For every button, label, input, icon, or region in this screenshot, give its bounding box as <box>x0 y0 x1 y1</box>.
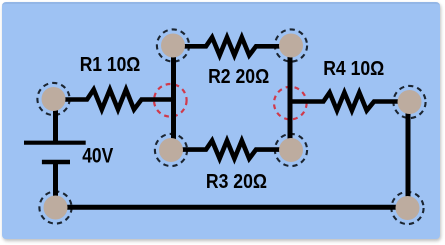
node ring bottom-right-middle <box>275 134 307 166</box>
resistor R4 with leads <box>290 93 410 111</box>
resistor R1 with leads <box>54 90 174 110</box>
wire vertical mid-right (node B column) <box>288 46 293 151</box>
svg-text:R1 10Ω: R1 10Ω <box>80 54 141 76</box>
node bottom-right corner <box>396 196 420 220</box>
junction marker J1 (red dashed circle) <box>154 84 187 117</box>
node bottom-left-middle <box>159 138 183 162</box>
node ring bottom-left-middle <box>155 134 187 166</box>
node left (battery +) <box>42 87 66 111</box>
svg-text:40V: 40V <box>82 144 113 167</box>
node right <box>398 90 422 114</box>
node top-left <box>161 34 185 58</box>
node ring bottom-left corner <box>39 191 71 223</box>
svg-text:R2 20Ω: R2 20Ω <box>208 66 269 88</box>
wire vertical right side <box>406 102 411 208</box>
node bottom-right-middle <box>279 138 303 162</box>
node top-right <box>279 34 303 58</box>
resistor R3 with leads <box>171 141 291 159</box>
svg-text:R3 20Ω: R3 20Ω <box>206 171 267 193</box>
node ring bottom-right corner <box>391 192 423 224</box>
battery B1 negative plate <box>42 160 70 165</box>
resistor R2 with leads <box>173 37 291 55</box>
node ring left <box>37 83 69 115</box>
node ring top-left <box>157 29 189 61</box>
wire vertical mid-left (node A column) <box>171 46 176 151</box>
node ring right <box>393 86 425 118</box>
wire battery top lead <box>53 99 58 142</box>
svg-text:R4 10Ω: R4 10Ω <box>323 58 384 80</box>
node ring top-right <box>275 29 307 61</box>
wire bottom rail <box>56 205 408 210</box>
wire battery bottom lead <box>53 162 58 207</box>
battery B1 positive plate <box>24 141 86 145</box>
junction marker J2 (red dashed circle) <box>274 87 307 120</box>
node bottom-left corner <box>44 196 68 220</box>
